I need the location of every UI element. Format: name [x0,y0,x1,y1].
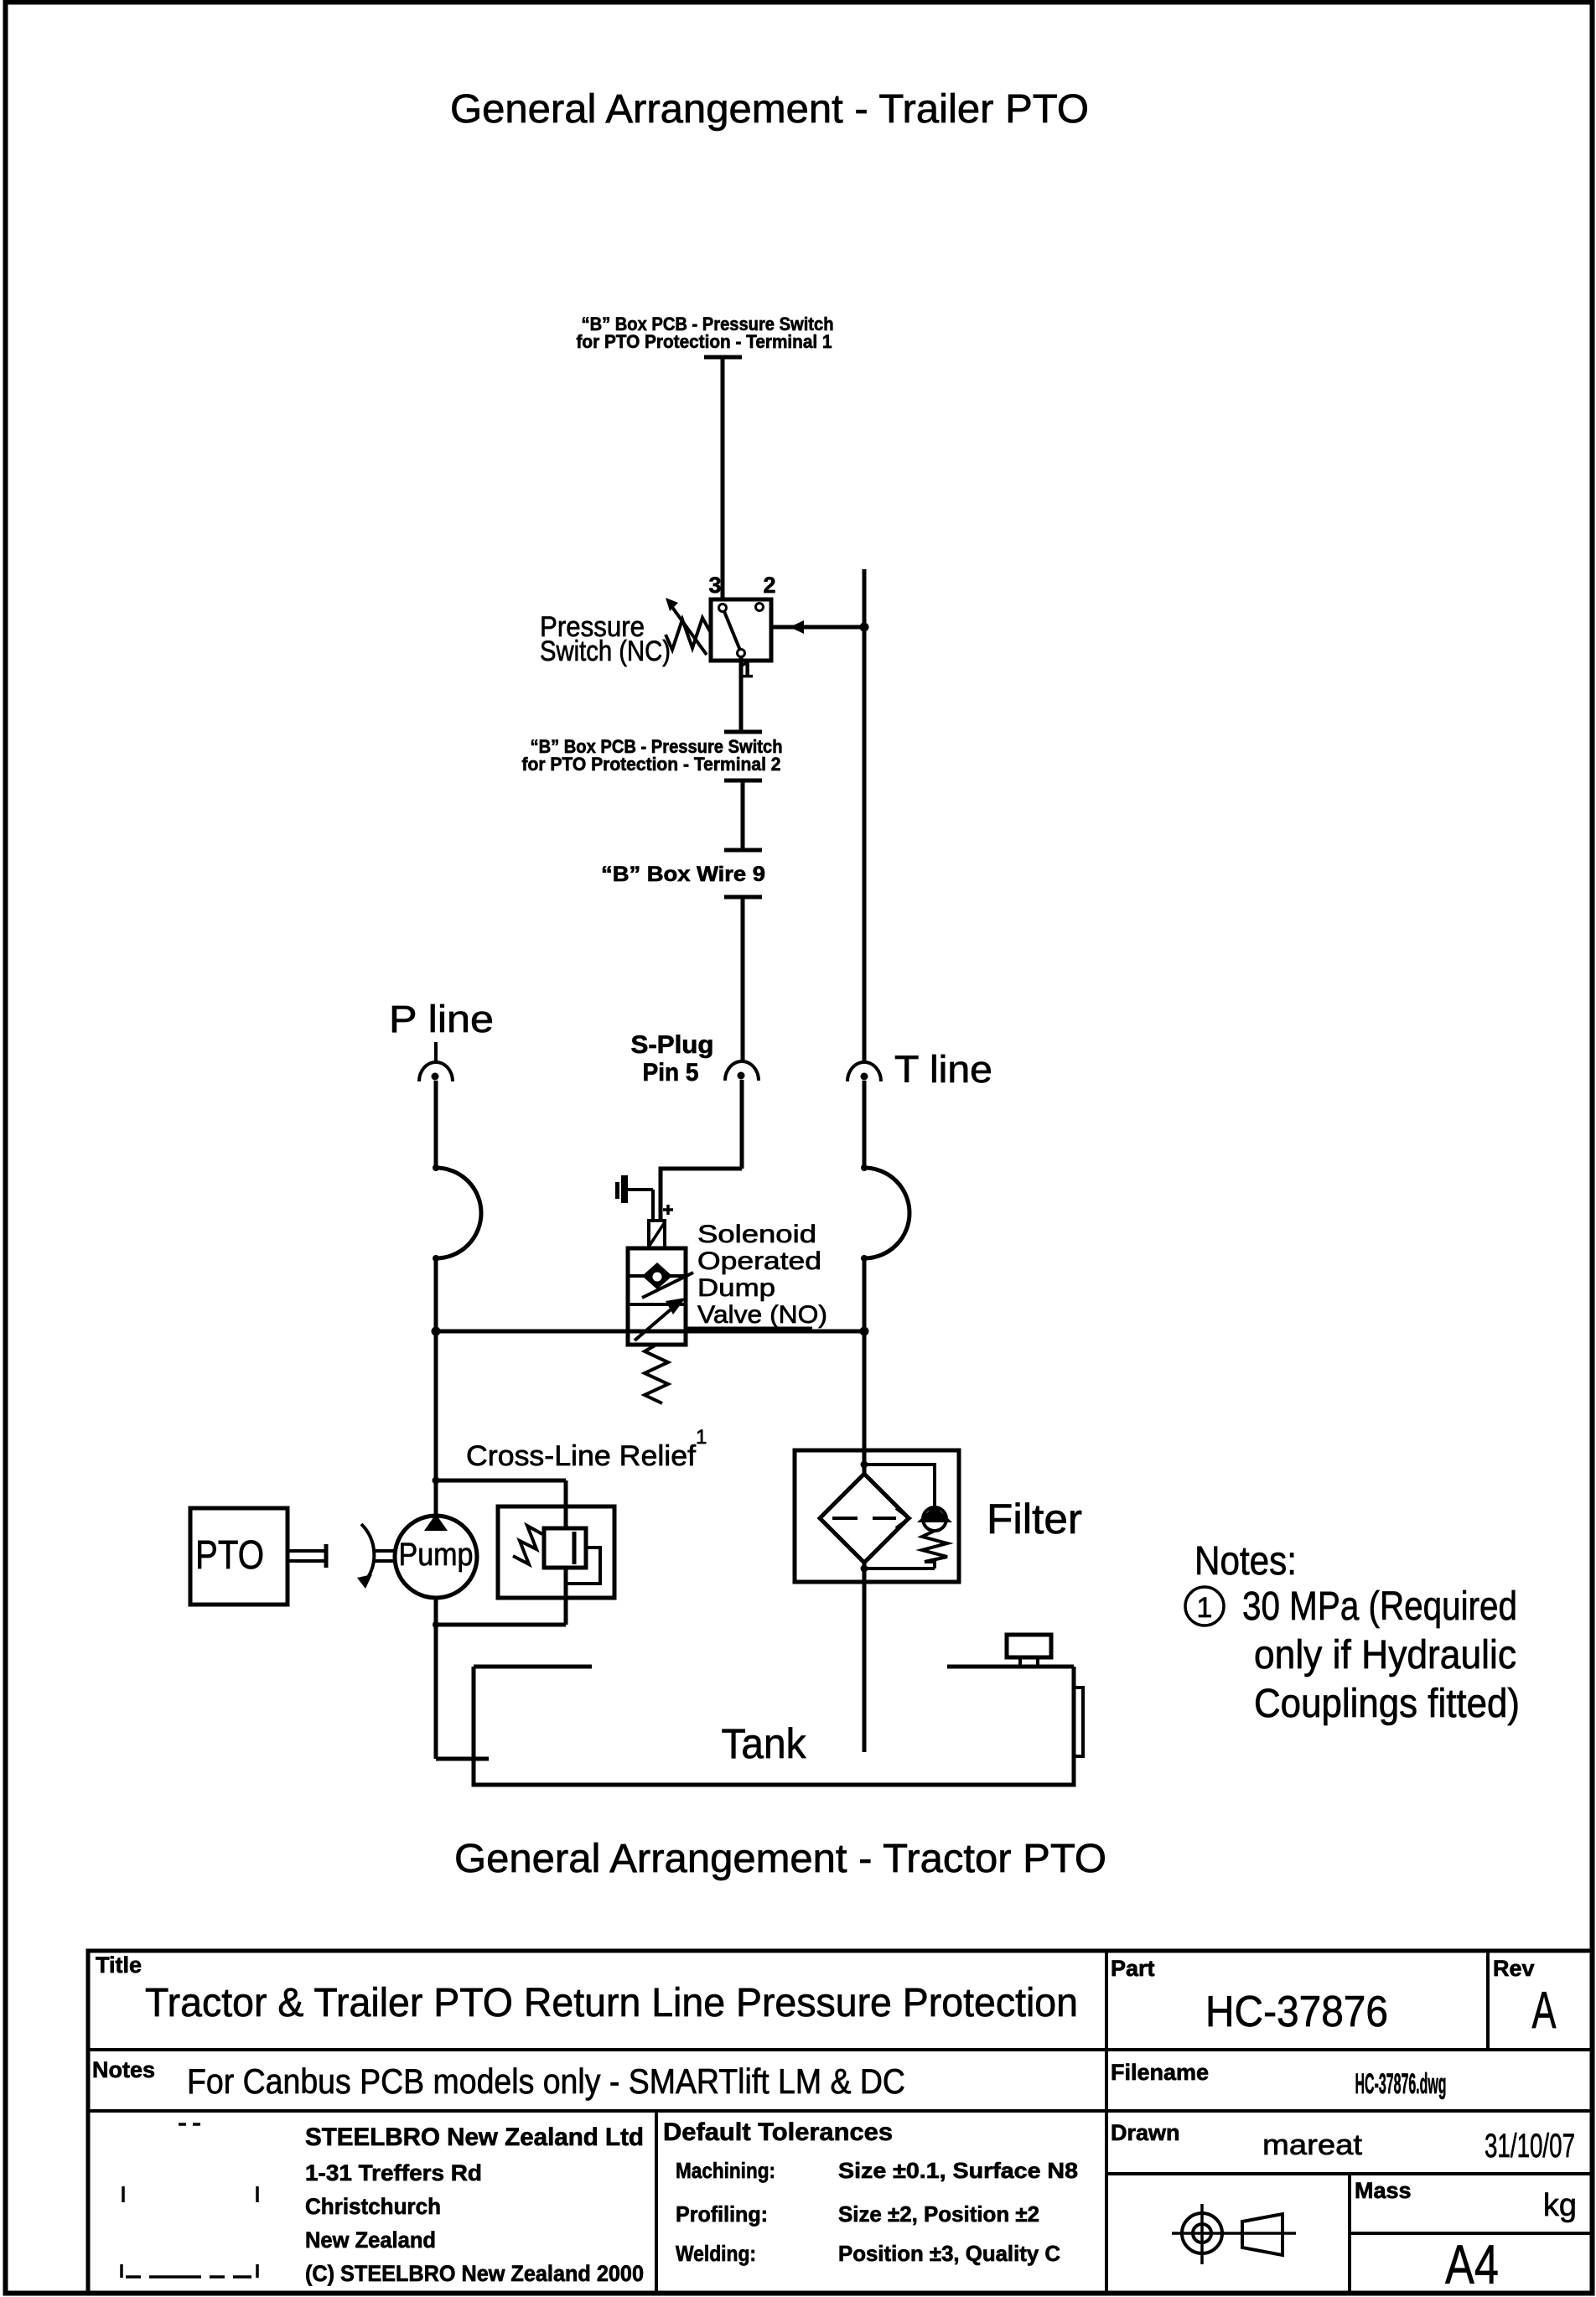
tank outline [474,1667,1074,1785]
filter label [987,1496,1082,1543]
mass label [1355,2178,1412,2203]
wire main horizontal P to T [436,1330,864,1334]
svg-text:(C) STEELBRO New Zealand 2000: (C) STEELBRO New Zealand 2000 [305,2261,644,2286]
svg-text:New Zealand: New Zealand [305,2227,436,2253]
svg-text:General Arrangement - Trailer: General Arrangement - Trailer PTO [450,87,1089,132]
S-plug connector [725,1061,759,1081]
node terminal bar [724,848,762,853]
junction P [432,1327,441,1336]
wire [863,1081,867,1168]
filename value [1355,2068,1447,2100]
svg-text:2: 2 [763,573,775,598]
pump P1 [395,1514,477,1598]
svg-text:Couplings fitted): Couplings fitted) [1254,1682,1520,1726]
svg-text:Title: Title [96,1952,142,1978]
junction [433,1477,440,1485]
breather cap [1007,1635,1051,1667]
notes value [187,2061,905,2101]
svg-text:General Arrangement - Tractor: General Arrangement - Tractor PTO [454,1837,1106,1881]
wire S-plug to solenoid [661,1169,742,1221]
bypass spring [922,1531,947,1568]
svg-text:Switch (NC): Switch (NC) [540,635,671,667]
pump shaft [375,1551,395,1561]
svg-text:Pump: Pump [399,1537,474,1573]
wire switch pilot to T line [771,620,864,634]
svg-text:31/10/07: 31/10/07 [1485,2128,1575,2165]
svg-text:for PTO Protection - Terminal: for PTO Protection - Terminal 1 [577,331,832,352]
rotation arrow [357,1524,374,1589]
logo placeholder dashes [122,2124,257,2278]
svg-text:Filename: Filename [1111,2060,1209,2085]
filter bypass wire [861,1461,935,1506]
wire pump suction [433,1598,489,1759]
wire to S-plug [741,897,745,1062]
tank label [722,1720,807,1767]
svg-text:T line: T line [894,1048,992,1091]
filter F1 box [795,1450,959,1582]
svg-text:Filter: Filter [987,1496,1082,1543]
svg-text:Drawn: Drawn [1111,2120,1180,2145]
title label [96,1952,142,1978]
node terminal 1 bar [704,355,742,360]
svg-text:Christchurch: Christchurch [305,2194,441,2219]
drawn label [1111,2120,1180,2145]
wire [741,780,745,850]
solenoid coil [649,1221,665,1248]
svg-text:A4: A4 [1445,2233,1499,2295]
svg-text:mareat: mareat [1262,2129,1363,2161]
wire relief bottom [436,1623,566,1627]
svg-text:Notes: Notes [92,2057,155,2082]
svg-text:PTO: PTO [195,1533,264,1578]
node terminal bar [724,895,762,900]
level gauge [1074,1688,1083,1756]
wire P down [434,1331,438,1480]
part number [1205,1988,1388,2036]
svg-text:kg: kg [1543,2188,1577,2223]
svg-text:Default Tolerances: Default Tolerances [663,2118,893,2146]
T line through filter [863,1331,867,1752]
node P line label [389,998,494,1040]
node terminal bar [724,779,762,783]
node B-Box PCB Terminal 2 label [522,736,783,775]
svg-text:A: A [1532,1982,1557,2040]
svg-text:30 MPa (Required: 30 MPa (Required [1242,1584,1517,1629]
dump valve poppet [642,1263,693,1298]
svg-text:Part: Part [1111,1956,1155,1981]
dump valve V1 body [628,1248,686,1345]
svg-text:Notes:: Notes: [1194,1539,1297,1584]
svg-text:for PTO Protection - Terminal: for PTO Protection - Terminal 2 [522,754,781,775]
bypass check valve [917,1506,952,1531]
svg-text:Position ±3, Quality C: Position ±3, Quality C [838,2241,1060,2266]
drawn by [1262,2129,1363,2161]
filename label [1111,2060,1209,2085]
svg-text:3: 3 [708,573,721,598]
wire switch port1 down [739,656,744,732]
node terminal bar [724,730,762,734]
title value [145,1981,1078,2025]
cross-line relief RV1 [498,1506,614,1598]
notes label [92,2057,155,2082]
node B-Box PCB Terminal 1 label [577,314,834,352]
svg-text:1: 1 [696,1426,707,1449]
node title bottom: General Arrangement - Tractor PTO [454,1837,1106,1881]
notes heading [1194,1539,1297,1584]
svg-text:1: 1 [1197,1592,1213,1624]
svg-text:Rev: Rev [1493,1956,1535,1981]
svg-text:Dump: Dump [697,1274,775,1302]
svg-text:Valve (NO): Valve (NO) [697,1301,827,1329]
note 1 circle [1185,1587,1224,1626]
title block frame [88,1951,1592,2294]
PTO shaft [288,1544,326,1568]
dump valve label [697,1221,827,1329]
svg-text:Profiling:: Profiling: [676,2201,768,2227]
pressure switch PS1 body [711,599,771,661]
P line coupling male [433,1164,481,1262]
T line coupling male [861,1164,909,1262]
company address [305,2123,644,2286]
node title top: General Arrangement - Trailer PTO [450,87,1089,132]
rev value [1532,1982,1557,2040]
dump valve spring [645,1345,668,1403]
pin 3 label [708,573,721,598]
pin 1 label [740,657,753,682]
PTO box [190,1508,288,1605]
drawn date [1485,2128,1575,2165]
mass unit [1543,2188,1577,2223]
svg-text:STEELBRO New Zealand Ltd: STEELBRO New Zealand Ltd [305,2123,644,2151]
wire S-plug down [740,1080,744,1169]
filter diamond [820,1474,909,1563]
P line stub [434,1042,438,1062]
relief valve vertical [564,1480,568,1625]
svg-text:Mass: Mass [1355,2178,1412,2203]
chassis ground [615,1175,653,1221]
svg-text:Size ±0.1, Surface N8: Size ±0.1, Surface N8 [838,2158,1078,2183]
svg-text:HC-37876: HC-37876 [1205,1988,1388,2036]
svg-text:P line: P line [389,998,494,1040]
pressure switch label [540,611,671,667]
sheet size [1445,2233,1499,2295]
svg-text:Operated: Operated [697,1247,821,1275]
pressure switch spring [666,618,711,650]
P line coupling female [419,1062,453,1081]
svg-text:S-Plug: S-Plug [631,1031,714,1059]
svg-text:only if Hydraulic: only if Hydraulic [1254,1633,1516,1677]
svg-text:Tractor & Trailer PTO Return L: Tractor & Trailer PTO Return Line Pressu… [145,1981,1078,2025]
junction T [860,1327,869,1336]
node B Box Wire 9 label [601,863,765,886]
wire [863,1258,867,1475]
wire relief top [436,1479,566,1483]
projection symbol [1172,2204,1296,2264]
svg-text:Pin 5: Pin 5 [643,1059,699,1086]
dump valve flow arrow [635,1298,812,1340]
svg-text:Machining:: Machining: [676,2158,775,2183]
svg-text:1-31 Treffers Rd: 1-31 Treffers Rd [305,2160,482,2186]
svg-text:Size ±2, Position ±2: Size ±2, Position ±2 [838,2201,1039,2227]
rev label [1493,1956,1535,1981]
node S-Plug Pin 5 label [631,1031,714,1086]
note 1 text [1242,1584,1520,1726]
wire [434,1258,438,1331]
svg-text:Cross-Line Relief: Cross-Line Relief [466,1440,697,1472]
wire [434,1081,438,1168]
svg-text:Tank: Tank [722,1720,807,1767]
wire pump top [434,1480,438,1517]
svg-text:For Canbus PCB models only - S: For Canbus PCB models only - SMARTlift L… [187,2061,905,2101]
svg-text:Solenoid: Solenoid [697,1221,816,1248]
pressure switch adjust arrow [666,598,707,655]
pin 2 label [763,573,775,598]
plus sign [663,1205,673,1215]
svg-text:HC-37876.dwg: HC-37876.dwg [1355,2068,1447,2100]
part label [1111,1956,1155,1981]
svg-text:“B” Box Wire 9: “B” Box Wire 9 [601,863,765,886]
svg-text:Welding:: Welding: [676,2241,756,2266]
junction T line / pilot [860,623,869,632]
T line vertical [863,569,867,1062]
default tolerances [663,2118,1078,2266]
wire terminal1 to switch port 3 [721,357,725,609]
T line coupling female [847,1062,881,1081]
bypass bottom wire [861,1565,935,1573]
node T line label [894,1048,992,1091]
cross-line relief label [466,1426,707,1472]
